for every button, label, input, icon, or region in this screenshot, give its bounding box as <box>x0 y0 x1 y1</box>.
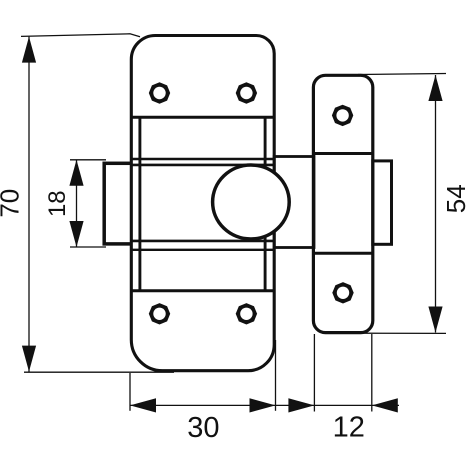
svg-text:18: 18 <box>44 190 71 217</box>
svg-text:70: 70 <box>0 189 24 218</box>
svg-text:30: 30 <box>187 412 219 444</box>
svg-text:54: 54 <box>441 184 470 213</box>
svg-text:12: 12 <box>333 411 365 443</box>
